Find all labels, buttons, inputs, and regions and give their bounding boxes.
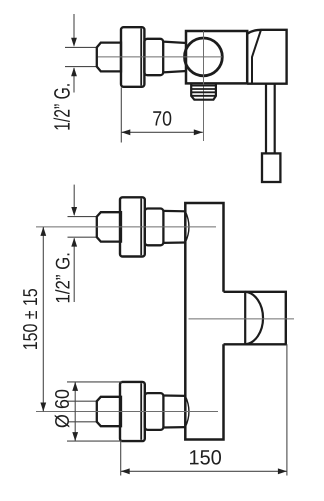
wall flange top view <box>121 27 144 87</box>
lower throat extension lines <box>68 401 97 422</box>
lower stub block <box>97 397 121 426</box>
dimension 70 line with arrows <box>121 131 203 133</box>
lever knob top view <box>262 153 280 182</box>
hex nut top view <box>144 39 163 75</box>
outlet centerline front view <box>189 318 295 320</box>
dimension text 150 ± 15 <box>23 289 37 349</box>
dimension arrow bottom (1/2" lower leader) <box>73 68 75 93</box>
upper connecting pipe <box>163 211 185 243</box>
dimension 70 extension line <box>120 88 122 143</box>
label 1/2" G. (top view) <box>54 84 70 129</box>
valve body top view <box>186 31 247 83</box>
1/2" upper leader front view <box>73 185 75 215</box>
threaded shower outlet top view <box>191 83 216 99</box>
inlet throat lines (extension lines) top view <box>65 47 97 66</box>
label 1/2" G. (front view) <box>55 254 69 303</box>
upper wall flange <box>120 197 145 256</box>
upper stub block <box>97 212 121 241</box>
lever stem top view <box>266 84 275 154</box>
Ø60 extension lines <box>67 382 122 441</box>
cartridge circle <box>185 38 223 76</box>
valve body front view <box>185 203 223 440</box>
shower outlet box front view <box>224 292 286 345</box>
connecting pipe top view <box>163 42 186 73</box>
upper pipe wall arc <box>185 211 189 242</box>
lower wall flange <box>120 382 145 441</box>
upper hex nut <box>145 209 164 246</box>
handle cap top view <box>247 30 286 84</box>
dimension 150±15 line with arrows <box>42 227 44 412</box>
1/2" lower leader front view <box>73 238 75 302</box>
lower connecting pipe <box>163 396 185 428</box>
vertical centerline through outlet top view <box>203 31 205 141</box>
dimension arrow top (1/2" upper leader) <box>73 14 75 46</box>
dimension 150 extension lines <box>121 344 287 475</box>
outlet arc <box>245 292 263 345</box>
dimension 150 line with arrows <box>121 470 287 472</box>
horizontal centerline top view <box>98 56 222 58</box>
dimension text Ø 60 <box>55 390 70 428</box>
upper throat extension lines <box>68 217 97 238</box>
lower pipe wall arc <box>185 396 189 427</box>
dimension text 70 <box>153 111 171 126</box>
lower hex nut <box>145 393 164 430</box>
lower fitting centerline <box>36 411 218 413</box>
upper fitting centerline <box>36 226 216 228</box>
dimension text 150 <box>190 450 221 465</box>
dimension Ø60 line with arrows <box>74 382 76 441</box>
outlet inner line <box>244 292 246 345</box>
inlet stub block top view <box>97 43 121 72</box>
